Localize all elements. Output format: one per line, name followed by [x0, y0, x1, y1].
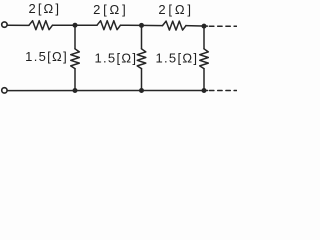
resistor R3 2[ohm] [163, 21, 187, 30]
wire: R5 to bottom rail [141, 69, 143, 91]
junction dot bottom C [202, 88, 207, 93]
wire: top rail dashed continuation [210, 25, 237, 27]
svg-text:1.5[Ω]: 1.5[Ω] [94, 51, 137, 66]
node B junction dot [139, 23, 144, 28]
node A junction dot [73, 23, 78, 28]
junction dot bottom B [139, 88, 144, 93]
wire: node A down [74, 25, 76, 49]
resistor R5 1.5[ohm] [137, 49, 146, 69]
wire: R3 to node C [186, 25, 208, 28]
wire: node A to R2 [75, 24, 97, 26]
wire: bottom rail dashed continuation [210, 90, 237, 92]
resistor R4 1.5[ohm] [71, 49, 80, 69]
svg-text:2[Ω]: 2[Ω] [158, 2, 193, 17]
wire: node C down [203, 26, 205, 49]
svg-text:1.5[Ω]: 1.5[Ω] [25, 49, 68, 64]
terminal: input top [2, 22, 7, 27]
node C junction dot [202, 24, 207, 29]
wire: top rail left [7, 24, 29, 26]
wire: R1 to node A [53, 24, 76, 26]
resistor R6 1.5[ohm] [200, 49, 209, 69]
wire: R2 to node B [121, 24, 142, 26]
resistor R1 2[ohm] [29, 21, 53, 30]
wire: node B down [141, 25, 143, 48]
resistor R2 2[ohm] [97, 21, 121, 30]
wire: bottom rail [7, 90, 207, 92]
svg-text:2[Ω]: 2[Ω] [29, 1, 62, 16]
wire: node B to R3 [142, 24, 163, 26]
junction dot bottom A [73, 88, 78, 93]
svg-text:2[Ω]: 2[Ω] [93, 2, 128, 17]
terminal: input bottom [2, 88, 7, 93]
wire: R4 to bottom rail [74, 69, 76, 91]
svg-text:1.5[Ω]: 1.5[Ω] [155, 51, 198, 66]
wire: R6 to bottom rail [203, 69, 205, 91]
